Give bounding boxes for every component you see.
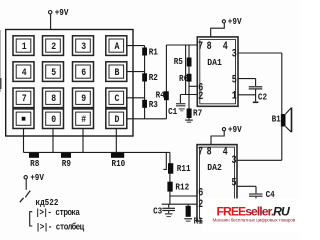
svg-text:5: 5	[232, 177, 237, 189]
svg-text:C2: C2	[258, 92, 267, 103]
wire pin7 DA1	[166, 44, 197, 46]
op-amp U1 box DA1	[197, 37, 238, 106]
keypad outline S1	[6, 30, 133, 137]
wire pin1 DA1	[238, 94, 256, 96]
op-amp U2 box DA2	[197, 145, 237, 221]
svg-text:4: 4	[223, 40, 228, 52]
svg-text:8: 8	[207, 146, 212, 158]
resistor R11	[168, 163, 191, 174]
key C	[106, 88, 127, 108]
key D	[106, 109, 127, 129]
key 5	[43, 62, 64, 82]
svg-text:R4: R4	[156, 90, 165, 101]
edge artifact marks	[0, 30, 2, 92]
wire keypad supply	[50, 14, 52, 30]
key 3	[73, 36, 94, 56]
resistor R9	[61, 153, 71, 169]
capacitor C3	[153, 204, 175, 217]
svg-text:R7: R7	[193, 108, 202, 119]
key 6	[73, 62, 94, 82]
svg-text:9: 9	[81, 92, 86, 104]
resistor R12	[167, 182, 189, 193]
svg-text:+9V: +9V	[55, 7, 69, 18]
switch contact	[20, 198, 24, 202]
wire pin2 stub DA1	[180, 94, 197, 96]
wire DA2 supply bracket	[211, 131, 224, 145]
resistor R10	[111, 153, 125, 169]
svg-text:|>|- столбец: |>|- столбец	[36, 221, 84, 233]
wire row A	[127, 45, 145, 47]
wire pin5 DA1	[238, 78, 256, 80]
svg-text:6: 6	[198, 186, 203, 198]
key 2	[43, 36, 64, 56]
wire row C	[127, 97, 145, 99]
wire stub with tick	[163, 152, 166, 169]
svg-text:7: 7	[22, 92, 27, 104]
resistor R3	[142, 99, 158, 110]
svg-text:1: 1	[232, 90, 237, 102]
svg-text:3: 3	[232, 154, 237, 166]
svg-text:B1: B1	[272, 114, 281, 125]
svg-text:R3: R3	[149, 99, 158, 110]
wire pin6 stub DA2	[170, 195, 197, 197]
svg-text:#: #	[81, 113, 86, 125]
svg-text:+9V: +9V	[228, 124, 242, 135]
svg-text:R10: R10	[112, 158, 126, 169]
svg-text:R11: R11	[177, 164, 191, 175]
svg-text:+9V: +9V	[30, 173, 44, 184]
resistor R4	[156, 45, 169, 119]
svg-text:8: 8	[51, 92, 56, 104]
logo backdrop	[203, 199, 301, 232]
svg-text:R9: R9	[62, 158, 71, 169]
speaker B1	[272, 108, 292, 133]
svg-text:|>|- строка: |>|- строка	[35, 207, 79, 218]
wire col 2	[52, 129, 54, 153]
wire col 3	[82, 129, 84, 153]
resistor R7	[187, 108, 203, 120]
wire col 1	[23, 129, 25, 153]
+9V terminal DA2	[222, 124, 241, 135]
svg-text:R12: R12	[175, 182, 189, 193]
capacitor C2	[249, 79, 267, 104]
svg-text:C1: C1	[168, 106, 177, 117]
ground under R7	[185, 120, 193, 123]
svg-text:DA2: DA2	[207, 163, 222, 174]
resistor R2	[142, 73, 158, 84]
svg-text:8: 8	[207, 40, 212, 52]
key B	[106, 62, 127, 82]
wire pin3 DA2	[237, 159, 282, 161]
resistor R13	[184, 204, 207, 226]
wire pin6 drop DA1	[185, 45, 187, 95]
svg-text:6: 6	[81, 66, 86, 78]
key 8	[43, 88, 64, 108]
+9V terminal keypad	[49, 7, 69, 18]
svg-text:C3: C3	[153, 206, 162, 217]
wire R11 R12 drop	[169, 152, 171, 204]
resistor R5	[174, 57, 192, 68]
svg-text:3: 3	[232, 48, 237, 60]
+9V terminal DA1	[222, 16, 241, 27]
legend bracket	[30, 212, 33, 226]
resistor R8	[29, 153, 39, 169]
capacitor C1	[168, 95, 185, 118]
svg-text:7: 7	[198, 146, 203, 158]
wire pin3 DA1	[238, 52, 282, 54]
key 7	[13, 88, 34, 108]
wire row B	[127, 71, 145, 73]
svg-text:C: C	[115, 92, 120, 104]
wire DA1 supply bracket	[211, 23, 225, 37]
key A	[106, 36, 127, 56]
svg-text:R6: R6	[179, 73, 188, 84]
svg-text:R1: R1	[149, 47, 158, 58]
wire pin2 line DA2	[162, 203, 197, 205]
svg-text:4: 4	[223, 146, 228, 158]
wire R5 R6 chain	[188, 45, 190, 109]
resistor R6	[179, 73, 191, 84]
key #	[73, 109, 94, 129]
key 1	[13, 36, 34, 56]
wire col 4	[115, 129, 117, 153]
svg-text:2: 2	[198, 90, 203, 102]
wire row D	[127, 118, 167, 120]
key 4	[13, 62, 34, 82]
key 0	[43, 109, 64, 129]
svg-text:3: 3	[81, 40, 86, 52]
svg-text:7: 7	[198, 40, 203, 52]
svg-text:+9V: +9V	[228, 16, 242, 27]
capacitor C4	[249, 186, 275, 200]
svg-text:DA1: DA1	[207, 58, 222, 69]
switch arm	[25, 191, 30, 198]
svg-text:R5: R5	[174, 57, 183, 68]
+9V terminal legend	[24, 173, 44, 184]
wire legend supply	[25, 179, 27, 190]
resistor R1	[142, 47, 158, 58]
wire speaker net	[281, 53, 283, 160]
svg-text:D: D	[115, 113, 120, 125]
wire row ladder	[144, 46, 146, 119]
svg-text:R2: R2	[149, 73, 158, 84]
key *	[13, 109, 34, 129]
svg-text:5: 5	[51, 66, 56, 78]
svg-text:Магазин бесплатных цифровых то: Магазин бесплатных цифровых товаров	[213, 217, 296, 222]
wire pin6 stub DA1	[189, 85, 197, 87]
svg-text:B: B	[115, 66, 120, 78]
svg-text:A: A	[115, 40, 120, 52]
svg-text:2: 2	[51, 40, 56, 52]
svg-text:R8: R8	[30, 158, 39, 169]
wire column bus	[24, 151, 170, 153]
svg-text:5: 5	[232, 74, 237, 86]
key 9	[73, 88, 94, 108]
wire pin5 DA2	[237, 185, 256, 187]
svg-text:1: 1	[22, 40, 27, 52]
svg-text:4: 4	[22, 66, 27, 78]
svg-text:0: 0	[51, 113, 56, 125]
